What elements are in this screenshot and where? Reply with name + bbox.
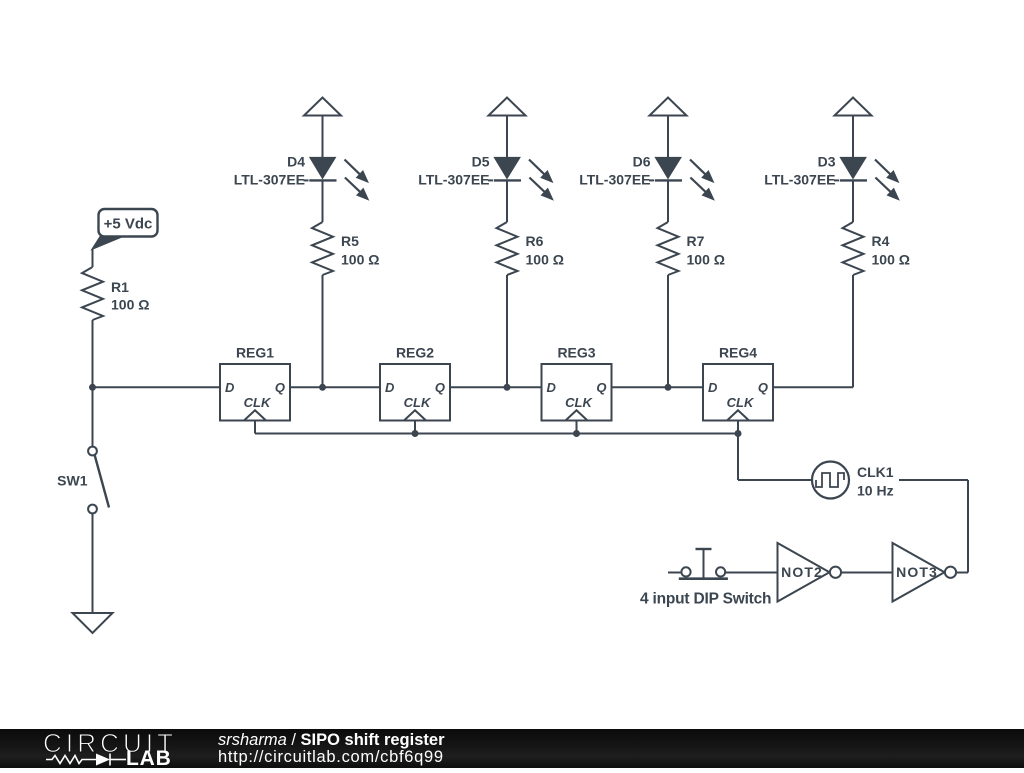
- svg-text:100 Ω: 100 Ω: [526, 252, 564, 268]
- svg-text:D5: D5: [472, 153, 490, 169]
- svg-text:D: D: [225, 380, 235, 395]
- svg-text:SW1: SW1: [57, 473, 88, 489]
- svg-text:REG4: REG4: [719, 345, 757, 361]
- svg-text:100 Ω: 100 Ω: [341, 252, 379, 268]
- svg-text:REG2: REG2: [396, 345, 434, 361]
- svg-text:LAB: LAB: [126, 747, 172, 768]
- svg-text:CLK1: CLK1: [857, 464, 894, 480]
- svg-text:100 Ω: 100 Ω: [687, 252, 725, 268]
- svg-text:100 Ω: 100 Ω: [111, 297, 149, 313]
- svg-text:D: D: [385, 380, 395, 395]
- svg-text:srsharma / SIPO shift register: srsharma / SIPO shift register: [218, 731, 445, 749]
- svg-text:100 Ω: 100 Ω: [872, 252, 910, 268]
- svg-text:D: D: [708, 380, 718, 395]
- svg-text:R1: R1: [111, 279, 129, 295]
- svg-text:NOT2: NOT2: [781, 564, 823, 580]
- svg-text:R4: R4: [872, 233, 890, 249]
- svg-text:CLK: CLK: [727, 395, 755, 410]
- svg-text:REG1: REG1: [236, 345, 274, 361]
- svg-text:Q: Q: [596, 380, 606, 395]
- svg-text:4 input DIP Switch: 4 input DIP Switch: [640, 591, 771, 608]
- svg-text:LTL-307EE: LTL-307EE: [764, 171, 835, 187]
- svg-text:Q: Q: [435, 380, 445, 395]
- svg-text:D6: D6: [633, 153, 651, 169]
- svg-text:NOT3: NOT3: [896, 564, 938, 580]
- svg-text:+5 Vdc: +5 Vdc: [104, 216, 153, 233]
- svg-text:http://circuitlab.com/cbf6q99: http://circuitlab.com/cbf6q99: [218, 748, 444, 766]
- svg-text:LTL-307EE: LTL-307EE: [579, 171, 650, 187]
- svg-text:Q: Q: [275, 380, 285, 395]
- svg-text:D: D: [547, 380, 557, 395]
- svg-text:Q: Q: [758, 380, 768, 395]
- svg-text:D4: D4: [287, 153, 305, 169]
- svg-text:LTL-307EE: LTL-307EE: [234, 171, 305, 187]
- svg-text:R7: R7: [687, 233, 705, 249]
- svg-text:D3: D3: [818, 153, 836, 169]
- svg-text:LTL-307EE: LTL-307EE: [418, 171, 489, 187]
- svg-text:CLK: CLK: [244, 395, 272, 410]
- svg-text:10 Hz: 10 Hz: [857, 483, 894, 499]
- svg-text:REG3: REG3: [557, 345, 595, 361]
- svg-text:R6: R6: [526, 233, 544, 249]
- svg-text:CLK: CLK: [404, 395, 432, 410]
- svg-text:R5: R5: [341, 233, 359, 249]
- svg-text:CLK: CLK: [565, 395, 593, 410]
